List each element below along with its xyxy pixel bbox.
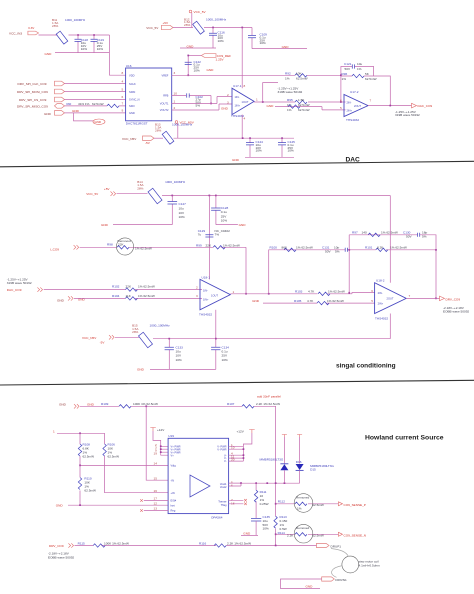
svg-text:1000_100MHz: 1000_100MHz: [206, 17, 227, 21]
svg-text:CO9_SENSE_N: CO9_SENSE_N: [344, 534, 367, 538]
ground net to Iset: [56, 503, 168, 507]
svg-text:2: 2: [196, 285, 198, 289]
svg-text:28%: 28%: [52, 24, 58, 28]
svg-text:R99: R99: [196, 243, 202, 247]
svg-text:8: 8: [122, 71, 124, 75]
svg-text:V+: V+: [171, 453, 175, 457]
svg-text:2: 2: [174, 106, 176, 110]
svg-text:GND: GND: [44, 112, 52, 116]
svg-text:4: 4: [122, 80, 124, 84]
capacitor C127: [168, 196, 187, 225]
svg-text:10%: 10%: [288, 149, 294, 153]
svg-text:2IN+: 2IN+: [378, 302, 384, 306]
capacitor C131: [322, 246, 347, 254]
capacitor C118: [75, 35, 89, 53]
wire C102 down to VOUT1 line: [210, 96, 212, 104]
ground bar snubber: [241, 532, 258, 536]
svg-text:DRV_SPI_CS_CO9: DRV_SPI_CS_CO9: [19, 98, 47, 102]
svg-text:14: 14: [154, 462, 158, 466]
svg-text:12: 12: [154, 501, 158, 505]
wire VOUT1 to U17-1 in-: [172, 97, 232, 104]
wire minus node vertical U18-2: [348, 235, 350, 293]
svg-text:VCC_IN3: VCC_IN3: [9, 31, 22, 35]
svg-text:R97: R97: [352, 231, 358, 235]
svg-text:GND: GND: [87, 402, 95, 406]
wire U18-2 V+ supply: [389, 196, 391, 283]
svg-text:2IN-: 2IN-: [347, 101, 352, 105]
svg-text:R101: R101: [365, 246, 373, 250]
svg-text:4: 4: [244, 117, 246, 121]
svg-text:V- PWR: V- PWR: [217, 447, 226, 451]
svg-text:E/S#: E/S#: [171, 499, 177, 503]
svg-text:7: 7: [122, 101, 124, 105]
svg-text:CO9_SENSE_P: CO9_SENSE_P: [344, 503, 366, 507]
svg-text:1: 1: [174, 100, 176, 104]
svg-text:5%: 5%: [196, 104, 201, 108]
wire U19 V- pin stubs right: [229, 446, 244, 461]
op-amp U17-2: [340, 90, 372, 122]
wire I_CO9 line: [80, 246, 246, 248]
svg-text:R114: R114: [278, 531, 285, 535]
svg-text:10K: 10K: [296, 71, 302, 75]
svg-text:GND: GND: [59, 403, 67, 407]
resistor R108: [78, 433, 94, 465]
svg-text:Tflag: Tflag: [221, 503, 227, 507]
svg-text:D15: D15: [310, 468, 316, 472]
ground bar C116: [180, 44, 216, 48]
port DRV_SPI_MISO_CO9: [17, 104, 65, 109]
svg-text:DRIVN1: DRIVN1: [335, 578, 347, 582]
port DRIVN1: [322, 577, 347, 582]
wire -5V rail top: [174, 137, 295, 139]
port GND (mid): [57, 296, 86, 302]
wire R99 node down to U18-1 output: [245, 247, 247, 293]
svg-text:RFB: RFB: [163, 94, 168, 98]
svg-text:1.25V: 1.25V: [216, 57, 225, 61]
svg-text:DRV_CO9: DRV_CO9: [446, 297, 461, 301]
diode D15: [296, 464, 335, 483]
wire U18-1 V- supply: [215, 310, 217, 339]
svg-text:3: 3: [227, 100, 229, 104]
svg-text:4.1mH+0.5ohm: 4.1mH+0.5ohm: [359, 563, 381, 567]
wire VCC_5V to bead B12: [173, 27, 193, 29]
svg-text:U17-1: U17-1: [233, 84, 242, 88]
wire Kelvin sense N: [276, 533, 339, 535]
svg-text:DAC_CO9: DAC_CO9: [418, 104, 433, 108]
power flag +12V left: [150, 428, 165, 456]
svg-text:2.2K 1% 62.5mW: 2.2K 1% 62.5mW: [256, 402, 280, 406]
resistor R116: [199, 541, 251, 547]
wire VOUT2 GND net to U17-1 in+: [172, 104, 232, 110]
separator line 1: [0, 161, 474, 167]
svg-text:2IN-: 2IN-: [378, 291, 383, 295]
wire U18-1 output to U18-2 in-: [230, 293, 374, 294]
svg-text:10u: 10u: [357, 62, 362, 66]
capacitor C125: [278, 138, 295, 157]
svg-text:VCC_N5V: VCC_N5V: [122, 137, 137, 141]
wire VCC_IN3 to bead B11: [39, 34, 58, 36]
svg-text:330: 330: [66, 102, 71, 106]
svg-text:22K: 22K: [206, 243, 212, 247]
ferrite bead B12: [184, 17, 227, 34]
svg-text:22K: 22K: [126, 284, 132, 288]
svg-text:8: 8: [244, 84, 246, 88]
resistor R105: [294, 299, 344, 305]
svg-text:3.3V: 3.3V: [28, 26, 35, 30]
port CO9_SENSE_P: [338, 502, 365, 507]
svg-text:10%: 10%: [179, 215, 185, 219]
svg-text:1%: 1%: [357, 67, 362, 71]
svg-text:5: 5: [340, 106, 342, 110]
ground bar under C133/C134: [137, 368, 216, 372]
svg-text:1% 62.5mW: 1% 62.5mW: [381, 231, 398, 235]
port VCC_5V (top): [146, 21, 173, 30]
wire DAC_CO9 to U18-1 in-: [44, 289, 202, 291]
resistor R99: [196, 243, 240, 249]
resistor R95: [287, 98, 310, 107]
svg-text:R107: R107: [227, 402, 235, 406]
svg-text:Removed: Removed: [296, 526, 310, 530]
svg-text:+5V: +5V: [163, 21, 170, 25]
resistor R102: [112, 284, 155, 291]
svg-text:7: 7: [370, 98, 372, 102]
svg-text:62.5mW: 62.5mW: [365, 77, 377, 81]
resistor R107: [227, 402, 280, 408]
svg-text:1OUT: 1OUT: [242, 100, 249, 104]
resistor R113 labels: [280, 515, 288, 531]
power flag diode left: [282, 435, 287, 464]
svg-text:2IN+: 2IN+: [347, 108, 353, 112]
op-amp U18-2: [371, 279, 410, 321]
svg-text:16: 16: [154, 489, 158, 493]
capacitor C133: [165, 339, 184, 370]
resistor R96: [342, 72, 377, 81]
svg-text:62.5mW: 62.5mW: [312, 534, 324, 538]
capacitor C116: [209, 28, 225, 49]
port I_CO9: [50, 245, 79, 252]
wire rail +5V top: [204, 27, 252, 29]
svg-text:THS4032: THS4032: [375, 316, 388, 320]
power flag VCC_N5V: [175, 121, 195, 139]
svg-text:1% 62.5mW: 1% 62.5mW: [327, 299, 344, 303]
port DRUP1: [317, 543, 342, 548]
svg-text:R116: R116: [199, 541, 206, 545]
capacitor C109: [248, 28, 267, 49]
svg-text:SDO: SDO: [129, 104, 135, 108]
wire +5V rail mid: [162, 195, 390, 197]
curve DRUP1 to coil: [331, 549, 349, 557]
svg-text:VOUT1: VOUT1: [160, 102, 169, 106]
resistor R90 on MISO line: [65, 102, 126, 107]
svg-text:DRUP1: DRUP1: [331, 544, 342, 548]
wire node to U16 VDD: [110, 35, 126, 75]
capacitor C134: [211, 339, 229, 370]
port GND (top left): [44, 111, 65, 116]
ground bar C128: [216, 223, 246, 227]
wire U17-1 V- down: [241, 115, 243, 139]
ferrite bead B14: [137, 180, 185, 204]
svg-text:GND: GND: [282, 45, 290, 49]
resistor R100: [270, 246, 313, 252]
ferrite bead B11: [52, 18, 86, 44]
svg-text:2.2K 1% 62.5mW: 2.2K 1% 62.5mW: [227, 541, 251, 545]
port VCC_N5V (top): [122, 136, 154, 145]
capacitor C128: [211, 196, 228, 225]
svg-text:U19: U19: [168, 434, 174, 438]
wire CLK to SCLK: [65, 83, 126, 85]
port DRV_CO9 (bottom input): [48, 543, 74, 559]
wire feedback line R109/R107: [80, 406, 276, 504]
node stub divider top: [53, 429, 105, 434]
svg-text:10%: 10%: [218, 39, 224, 43]
svg-text:DAC7811RGST: DAC7811RGST: [126, 122, 148, 126]
svg-text:R115: R115: [78, 541, 85, 545]
svg-text:10%: 10%: [222, 358, 228, 362]
svg-text:10%: 10%: [221, 219, 227, 223]
svg-text:R104: R104: [112, 294, 120, 298]
svg-text:+IN: +IN: [171, 491, 175, 495]
port DRV_SPI_CS_CO9: [19, 97, 65, 102]
svg-text:GND: GND: [207, 68, 215, 72]
port DRV_SPI_MOSI_CO9: [17, 89, 65, 94]
svg-text:DRV_SPI_MOSI_CO9: DRV_SPI_MOSI_CO9: [17, 90, 48, 94]
svg-text:Vout2: Vout2: [220, 485, 227, 489]
svg-text:VOUT2: VOUT2: [160, 108, 169, 112]
wire VCC_5V to bead B14: [117, 193, 148, 195]
wire feedback down to -IN: [146, 406, 168, 480]
svg-text:DRV_CO9: DRV_CO9: [49, 544, 64, 548]
annotation DAC_CO9: [7, 277, 32, 285]
svg-text:140: 140: [362, 231, 367, 235]
svg-text:2: 2: [227, 93, 229, 97]
svg-text:1% 62.5mW: 1% 62.5mW: [135, 247, 152, 251]
svg-text:VCC_5V: VCC_5V: [146, 26, 159, 30]
wire CS to SYNC: [65, 99, 126, 101]
svg-text:1IN+: 1IN+: [203, 298, 209, 302]
svg-text:15: 15: [154, 476, 158, 480]
svg-text:U18-1: U18-1: [202, 275, 211, 279]
svg-text:8.2K: 8.2K: [377, 246, 384, 250]
svg-text:62.5mW: 62.5mW: [92, 102, 104, 106]
pin E/S# NC wire: [140, 499, 168, 502]
svg-text:THS4032: THS4032: [199, 313, 212, 317]
svg-text:1IN-: 1IN-: [235, 95, 240, 99]
svg-text:3: 3: [196, 294, 198, 298]
svg-text:7%: 7%: [215, 232, 220, 236]
svg-text:10%: 10%: [97, 47, 103, 51]
svg-text:1IN-: 1IN-: [203, 289, 208, 293]
wire GND to U17-2 in+: [275, 107, 346, 110]
svg-text:28%: 28%: [155, 128, 161, 132]
wire -5V rail mid: [153, 338, 390, 340]
svg-text:28%: 28%: [132, 330, 138, 334]
feedback loop U17-2 : wire: [341, 67, 390, 106]
svg-text:6: 6: [340, 98, 342, 102]
svg-text:R103: R103: [295, 289, 303, 293]
svg-text:VREF: VREF: [161, 73, 168, 77]
capacitor C130: [403, 231, 427, 239]
capacitor C119: [91, 35, 105, 53]
resistor R92: [285, 71, 308, 80]
svg-text:1%: 1%: [342, 77, 347, 81]
port DRV_CO9 (mid output): [440, 296, 470, 313]
svg-text:GND: GND: [187, 44, 195, 48]
svg-text:+5V: +5V: [104, 187, 111, 191]
wire DRIVN1 to ground: [281, 579, 322, 589]
wire divider mid node to Vdig: [80, 464, 168, 466]
svg-text:THS4032: THS4032: [346, 118, 359, 122]
svg-text:MMBR5180LT3G: MMBR5180LT3G: [260, 457, 284, 461]
pin Reg NC wire: [140, 509, 168, 512]
svg-text:GND: GND: [221, 106, 229, 110]
svg-text:3: 3: [174, 71, 176, 75]
resistor R98 removed circle: [107, 238, 152, 255]
wire U18-1 V+ supply: [208, 196, 210, 280]
svg-text:1% 62.5mW: 1% 62.5mW: [223, 243, 240, 247]
svg-text:R92: R92: [285, 71, 291, 75]
svg-text:1%: 1%: [297, 506, 302, 510]
svg-text:+12V: +12V: [237, 430, 245, 434]
resistor R115: [78, 541, 129, 547]
svg-text:860: 860: [282, 246, 287, 250]
svg-text:2.2K: 2.2K: [287, 534, 294, 538]
resistor R93: [287, 105, 310, 112]
svg-text:62.5mW: 62.5mW: [108, 455, 120, 459]
svg-text:5%: 5%: [335, 249, 340, 253]
svg-text:10%: 10%: [256, 149, 262, 153]
svg-text:DRV_SPI_CLK_CO9: DRV_SPI_CLK_CO9: [18, 82, 47, 86]
resistor R97: [352, 231, 398, 237]
wire feedback loop R97/C130: [349, 235, 436, 299]
svg-text:62.5mW: 62.5mW: [296, 76, 308, 80]
svg-text:1% 62.5mW: 1% 62.5mW: [296, 246, 313, 250]
svg-text:R102: R102: [112, 284, 120, 288]
svg-text:VCC_5V: VCC_5V: [194, 10, 207, 14]
svg-text:GND: GND: [306, 585, 314, 589]
port CO9_REF: [188, 54, 231, 62]
wire GND to U18-1 in+: [74, 297, 202, 299]
junction dots C118 C119: [77, 34, 79, 36]
wire GND to U18-2 in+: [263, 302, 375, 304]
svg-text:OPA564: OPA564: [211, 515, 223, 519]
svg-text:R112: R112: [278, 499, 285, 503]
wire U19 V+ pin stubs: [161, 446, 168, 455]
svg-text:50V: 50V: [325, 249, 331, 253]
wire MOSI to SDIN: [65, 91, 126, 93]
svg-text:0.25W: 0.25W: [260, 502, 269, 506]
svg-text:7: 7: [409, 294, 411, 298]
ground bar under C118/C119: [45, 52, 110, 56]
svg-text:28%: 28%: [137, 187, 143, 191]
wire CO9_REF down to VREF line: [187, 56, 189, 76]
wire bead B11 to node: [69, 34, 110, 36]
resistor R110: [78, 465, 96, 505]
svg-text:62.5mW: 62.5mW: [83, 455, 95, 459]
svg-text:R98: R98: [107, 243, 113, 247]
svg-text:1: 1: [53, 429, 55, 433]
svg-text:EOBB wave 50092: EOBB wave 50092: [443, 309, 469, 313]
svg-text:DAC_CO9: DAC_CO9: [7, 288, 22, 292]
svg-text:7u: 7u: [198, 232, 202, 236]
svg-text:Reg: Reg: [171, 509, 176, 513]
curve coil to DRIVN1: [332, 566, 343, 578]
svg-text:SCLK: SCLK: [129, 82, 136, 86]
svg-text:62.5mW: 62.5mW: [84, 489, 96, 493]
svg-text:10: 10: [174, 92, 178, 96]
svg-text:19: 19: [154, 452, 158, 456]
svg-text:U17-2: U17-2: [350, 90, 359, 94]
ferrite bead B15: [132, 324, 170, 348]
svg-text:50V: 50V: [345, 67, 351, 71]
separator line 2: [0, 380, 474, 385]
port VCC_IN3: [9, 26, 39, 35]
resistor R112 removed circle: [278, 494, 324, 513]
svg-text:VCC_N5V: VCC_N5V: [82, 336, 97, 340]
wire +5V down to op-amp U17-1 V+: [241, 28, 243, 89]
svg-text:GND: GND: [232, 158, 240, 162]
svg-text:11K: 11K: [126, 294, 132, 298]
resistor R109: [101, 402, 158, 408]
wire GND port to U16 GND pin: [65, 112, 126, 114]
port VCC_5V (mid): [86, 187, 115, 196]
svg-text:1IN+: 1IN+: [235, 104, 241, 108]
svg-text:2OUT: 2OUT: [387, 297, 394, 301]
wire R100/C131 compensation branch: [269, 250, 349, 294]
svg-text:U16: U16: [126, 64, 132, 68]
svg-text:5%: 5%: [422, 234, 427, 238]
svg-text:GND: GND: [101, 223, 109, 227]
svg-text:GND: GND: [94, 120, 102, 124]
resistor R101: [349, 246, 436, 252]
svg-text:C121: C121: [344, 62, 352, 66]
ground bar under C124/C125: [232, 157, 294, 162]
svg-text:10%: 10%: [81, 47, 87, 51]
wire U18-2 V- supply: [389, 314, 391, 339]
svg-text:GND: GND: [252, 299, 260, 303]
capacitor C129 NC: [198, 229, 230, 237]
svg-text:Removed: Removed: [296, 495, 310, 499]
svg-text:DRV_SPI_MISO_CO9: DRV_SPI_MISO_CO9: [17, 105, 48, 109]
wire RFB line: [172, 95, 211, 97]
svg-text:Iset: Iset: [171, 503, 175, 507]
svg-text:GND: GND: [243, 532, 251, 536]
port VCC_N5V (mid): [82, 335, 114, 344]
svg-text:1000_100MHz: 1000_100MHz: [150, 324, 171, 328]
svg-text:GND: GND: [56, 503, 64, 507]
wire U18-2 output to DRV_CO9 port: [406, 297, 439, 299]
svg-text:Howland current Source: Howland current Source: [365, 435, 444, 442]
wire VREF line: [172, 74, 341, 76]
svg-text:V-: V-: [224, 459, 227, 463]
svg-text:D16: D16: [296, 460, 302, 464]
svg-text:10%: 10%: [263, 527, 269, 531]
svg-text:319B wave 50192: 319B wave 50192: [278, 90, 303, 94]
svg-text:100K 1% 62.5mW: 100K 1% 62.5mW: [133, 402, 158, 406]
svg-text:1% 62.5mW: 1% 62.5mW: [328, 289, 345, 293]
svg-text:10%: 10%: [260, 41, 266, 45]
motor coil circle: [342, 556, 380, 573]
wire Vout stubs and output node: [229, 483, 241, 486]
ground flag branch: [74, 113, 106, 125]
svg-text:1% 62.5mW: 1% 62.5mW: [138, 284, 155, 288]
svg-text:22K: 22K: [118, 243, 124, 247]
wire U17-1 output line to U17-2 in-: [254, 101, 345, 103]
svg-text:9: 9: [122, 108, 124, 112]
resistor R106: [103, 433, 168, 492]
svg-text:GND: GND: [57, 298, 65, 302]
svg-text:GND: GND: [239, 223, 247, 227]
svg-text:2OUT: 2OUT: [354, 104, 361, 108]
